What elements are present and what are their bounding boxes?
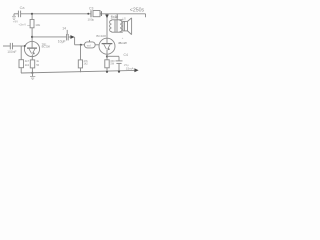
svg-text:56: 56 <box>36 63 39 67</box>
svg-text:1k2: 1k2 <box>84 62 89 66</box>
svg-text:14: 14 <box>62 27 66 31</box>
svg-text:4k7: 4k7 <box>25 59 30 63</box>
svg-text:100μ: 100μ <box>88 18 95 22</box>
svg-text:2k2: 2k2 <box>25 63 30 67</box>
svg-text:45mW: 45mW <box>118 41 127 45</box>
svg-text:100nF: 100nF <box>7 50 16 54</box>
svg-text:10k: 10k <box>35 23 40 27</box>
svg-text:1W: 1W <box>110 62 114 66</box>
svg-text:+2mV: +2mV <box>18 22 26 26</box>
svg-text:<250s: <250s <box>130 7 145 13</box>
svg-text:BC108: BC108 <box>42 45 51 49</box>
svg-text:10μF: 10μF <box>58 40 66 44</box>
svg-text:25μ: 25μ <box>124 63 129 67</box>
svg-text:C4: C4 <box>124 53 128 57</box>
svg-text:vol: vol <box>87 44 91 48</box>
svg-text:+9V: +9V <box>13 20 18 24</box>
svg-text:LS: LS <box>123 16 126 20</box>
svg-text:BC108: BC108 <box>96 34 106 38</box>
svg-text:C3: C3 <box>89 6 93 10</box>
